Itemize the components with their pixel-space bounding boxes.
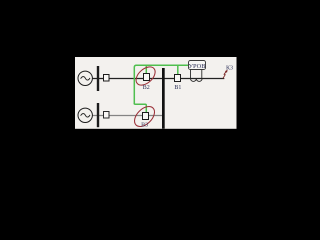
svg-text:К3: К3 bbox=[226, 65, 233, 71]
breaker V3 bbox=[143, 113, 149, 120]
current transformer loops bbox=[191, 79, 203, 82]
wire: green drop to breaker V1 bbox=[177, 65, 179, 75]
red highlight ellipse around V2 bbox=[133, 63, 159, 88]
fault arrow K3 bbox=[223, 70, 228, 79]
breaker V1 bbox=[175, 75, 181, 82]
label V2 bbox=[143, 85, 150, 91]
generator G1 bbox=[78, 71, 92, 85]
disconnector QS2 bbox=[104, 112, 110, 119]
label V3 bbox=[141, 123, 148, 129]
label K3 bbox=[226, 65, 233, 71]
wire: green drop to breaker V2 bbox=[145, 65, 147, 74]
schematic panel bbox=[75, 57, 237, 129]
svg-text:В3: В3 bbox=[141, 123, 148, 129]
label V1 bbox=[174, 85, 181, 91]
wire: green step to breaker V3 bbox=[134, 103, 146, 112]
wire: green trip circuit horizontal run bbox=[134, 65, 188, 104]
svg-text:В1: В1 bbox=[174, 85, 181, 91]
relay box UROV bbox=[188, 61, 205, 70]
generator G2 bbox=[78, 108, 92, 122]
wire: bottom feeder line (gray) bbox=[92, 115, 163, 117]
svg-text:В2: В2 bbox=[143, 85, 150, 91]
wire: top feeder line (black) bbox=[92, 78, 224, 80]
CT connection legs bbox=[191, 70, 202, 79]
breaker V2 bbox=[144, 74, 150, 81]
bus bar bbox=[162, 68, 165, 129]
generator G1 terminal bar bbox=[97, 66, 99, 91]
svg-text:УРОВ: УРОВ bbox=[188, 63, 205, 70]
disconnector QS1 bbox=[104, 75, 110, 82]
generator G2 terminal bar bbox=[97, 103, 99, 127]
red highlight ellipse around V3 bbox=[131, 103, 158, 130]
